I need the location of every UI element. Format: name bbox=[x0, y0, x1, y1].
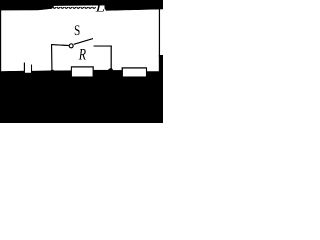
resistor box (bottom left, cropped) interior bbox=[72, 68, 93, 77]
resistor box (bottom right, cropped) interior bbox=[123, 69, 146, 77]
left wire (outer loop, at image edge) bbox=[0, 10, 1, 72]
right wire (outer loop) bbox=[159, 7, 160, 57]
battery lead tick 1 bbox=[24, 63, 25, 72]
bottom black crop mass bbox=[0, 55, 163, 123]
svg-text:S: S bbox=[74, 23, 80, 39]
switch blade (open) bbox=[74, 39, 93, 45]
switch branch: right horizontal wire bbox=[94, 45, 112, 47]
svg-text:R: R bbox=[78, 47, 86, 64]
branch left vertical wire bbox=[51, 44, 53, 71]
white figure background bbox=[0, 0, 163, 123]
svg-text:L: L bbox=[94, 0, 105, 15]
battery lead tick 2 bbox=[31, 65, 32, 73]
switch pivot ring bbox=[69, 44, 73, 48]
inductor L (coil loop bottoms visible under crop bar) bbox=[53, 6, 95, 9]
top black crop bar (scan border, cut through inductor) bbox=[0, 0, 163, 11]
branch right vertical wire bbox=[110, 46, 112, 71]
switch branch: left horizontal wire bbox=[51, 44, 68, 47]
junction foot of branch left vertical bbox=[50, 69, 54, 72]
